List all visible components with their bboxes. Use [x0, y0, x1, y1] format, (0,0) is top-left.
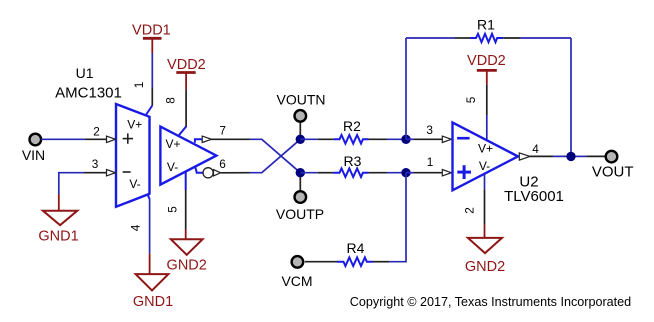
node VIN terminal [30, 134, 42, 146]
junction R2 node [401, 135, 410, 144]
svg-text:V-: V- [479, 159, 490, 173]
wire R2 node to U2 pin3 [406, 138, 443, 140]
wire GND1 stem [58, 194, 60, 211]
svg-text:R4: R4 [347, 240, 365, 256]
svg-text:AMC1301: AMC1301 [55, 84, 122, 101]
svg-text:VDD2: VDD2 [467, 53, 506, 69]
wire R3 node to R4 [389, 173, 406, 262]
svg-text:VOUTP: VOUTP [276, 206, 324, 222]
wire VIN to U1 pin2 [41, 138, 108, 140]
pin 7 stub [195, 139, 203, 143]
junction VOUTP [296, 168, 305, 177]
resistor R3 [300, 168, 406, 177]
svg-text:V-: V- [167, 160, 178, 174]
svg-text:V-: V- [129, 177, 140, 191]
node VOUT terminal [606, 151, 618, 163]
svg-text:2: 2 [93, 124, 100, 138]
svg-text:3: 3 [426, 123, 433, 137]
wire VDD2 to U2 pin5 [486, 85, 488, 140]
pin 6 arrowhead [214, 170, 221, 176]
pin 1 arrowhead U2 [442, 170, 451, 176]
junction output node [566, 152, 575, 161]
wire U1 pin3 branch [59, 173, 108, 194]
wire R3 node to U2 pin1 [406, 172, 443, 174]
wire pin6 to crossover [221, 139, 300, 173]
power VDD2 over U1 [176, 73, 195, 90]
svg-text:VIN: VIN [22, 147, 45, 163]
svg-text:GND2: GND2 [465, 259, 505, 275]
svg-text:5: 5 [166, 206, 180, 213]
svg-text:5: 5 [464, 96, 478, 103]
wire U2 output [530, 155, 605, 157]
svg-text:U1: U1 [76, 65, 94, 81]
pin 6 inverting bubble [203, 168, 213, 178]
svg-text:VCM: VCM [281, 273, 312, 289]
power VDD2 over U2 [477, 70, 497, 85]
svg-text:TLV6001: TLV6001 [504, 188, 564, 205]
svg-text:6: 6 [219, 157, 226, 171]
resistor R4 [305, 257, 389, 266]
pin 2 arrowhead [107, 136, 116, 142]
svg-text:R1: R1 [477, 17, 495, 33]
op-amp U1 output stage [160, 127, 216, 185]
svg-text:2: 2 [463, 207, 477, 214]
junction R3 node [401, 168, 410, 177]
power VDD1 [143, 38, 162, 53]
svg-text:R3: R3 [344, 153, 362, 169]
svg-text:V+: V+ [127, 118, 142, 132]
svg-text:1: 1 [427, 155, 434, 169]
wire feedback right vertical [570, 38, 572, 156]
svg-text:VDD1: VDD1 [132, 23, 171, 39]
svg-text:V+: V+ [165, 137, 180, 151]
resistor R2 [300, 135, 406, 144]
svg-text:R2: R2 [343, 118, 361, 134]
junction VOUTN [296, 135, 305, 144]
op-amp U2 [453, 123, 519, 191]
pin 6 stub [195, 167, 203, 173]
svg-text:GND1: GND1 [38, 229, 78, 245]
pin 4 arrowhead U2 output [519, 153, 530, 160]
wire VDD1 to U1 pin1 [146, 53, 153, 116]
ground GND2 under U2 [468, 238, 502, 253]
ground GND1 left [43, 211, 77, 226]
svg-text:7: 7 [219, 123, 226, 137]
pin 3 arrowhead [107, 170, 116, 176]
svg-text:GND1: GND1 [133, 294, 173, 310]
svg-text:4: 4 [129, 224, 143, 231]
node VOUTP terminal [295, 173, 307, 203]
wire pin7 to crossover [211, 139, 300, 172]
pin 7 arrowhead [202, 136, 211, 142]
wire U1 pin5 to GND2 [185, 172, 187, 240]
ground GND2 under U1 [171, 239, 203, 255]
svg-text:GND2: GND2 [167, 257, 207, 273]
node VOUTN terminal [295, 110, 307, 139]
svg-text:4: 4 [532, 142, 539, 156]
svg-text:V+: V+ [478, 142, 493, 156]
wire VDD2 to U1 pin8 [179, 90, 187, 136]
svg-text:3: 3 [92, 157, 99, 171]
op-amp U1 input stage [116, 104, 150, 207]
resistor R1 [406, 34, 571, 42]
wire feedback left vertical [405, 38, 407, 139]
svg-text:8: 8 [164, 97, 178, 104]
svg-text:VOUT: VOUT [592, 163, 634, 180]
svg-text:VOUTN: VOUTN [277, 91, 326, 107]
ground GND1 under U1 [136, 274, 169, 290]
svg-text:1: 1 [132, 82, 146, 89]
wire U2 pin2 to GND2 [484, 174, 486, 238]
svg-text:VDD2: VDD2 [167, 57, 206, 73]
wire U1 pin4 to GND1 [148, 194, 150, 274]
node VCM terminal [292, 256, 304, 268]
svg-text:Copyright © 2017, Texas Instru: Copyright © 2017, Texas Instruments Inco… [350, 295, 631, 309]
pin 3 arrowhead U2 [442, 136, 451, 142]
